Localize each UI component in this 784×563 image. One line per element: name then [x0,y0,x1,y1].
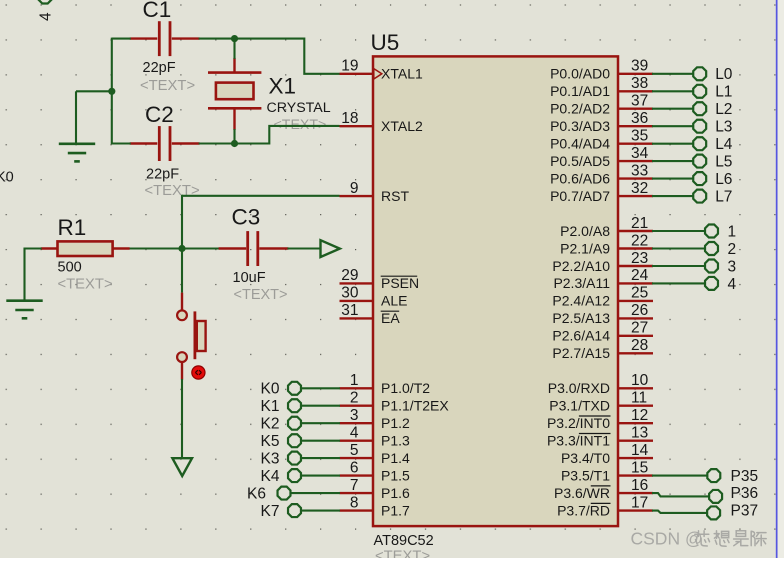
editor window border line [776,0,778,558]
terminal 2 [652,241,736,258]
svg-text:32: 32 [631,180,648,197]
push button top contact [177,310,187,320]
pin 37 P0.2/AD2 (right) [550,93,653,117]
pin 14 P3.4/T0 (right) [561,442,653,466]
svg-text:P3.5/T1: P3.5/T1 [561,467,610,483]
resistor R1 [41,241,130,256]
terminal L2 [652,101,732,118]
pin 33 P0.6/AD6 (right) [550,162,653,186]
pin 27 P2.6/A14 (right) [552,320,653,344]
terminal 3 [652,259,736,276]
svg-text:C2: C2 [145,102,174,127]
svg-text:CSDN @: CSDN @ [631,529,703,549]
wire crystal bottom to C2 junction [233,129,235,145]
terminal K2 [261,415,340,432]
svg-text:P2.4/A12: P2.4/A12 [552,293,610,309]
terminal (cut off at top edge) [39,0,52,3]
capacitor C3 [219,231,289,266]
svg-text:L4: L4 [715,136,733,153]
svg-text:2: 2 [350,390,359,407]
wire RST net horizontal [182,195,340,197]
terminal K6 [247,485,340,502]
terminal P35 [652,468,758,485]
push button bottom pin [181,362,183,380]
svg-text:15: 15 [631,459,648,476]
svg-text:4: 4 [350,425,359,442]
svg-text:31: 31 [341,302,358,319]
pin 24 P2.3/A11 (right) [553,267,653,291]
svg-text:38: 38 [631,75,648,92]
svg-text:30: 30 [341,285,359,302]
pin 12 P3.2/INT0 (right) [547,407,653,431]
svg-text:39: 39 [631,58,648,75]
pin 17 P3.7/RD (right) [557,494,653,518]
wire crystal top stub [233,39,235,59]
svg-text:K5: K5 [261,433,280,450]
svg-text:L5: L5 [715,153,732,170]
node junction R1/C3/RST [178,245,185,252]
svg-text:1: 1 [728,224,737,241]
XTAL1 clock input marker [374,69,382,79]
ground (R1) [23,248,25,301]
svg-text:P2.1/A9: P2.1/A9 [560,240,610,256]
pin 8 P1.7 (left) [340,494,411,518]
svg-text:CRYSTAL: CRYSTAL [267,100,331,116]
svg-text:P3.2/INT0: P3.2/INT0 [547,415,610,431]
svg-text:P2.6/A14: P2.6/A14 [552,328,610,344]
ground arrow terminal [172,458,192,476]
pin 15 P3.5/T1 (right) [561,459,653,483]
node junction C1/crystal top [231,35,238,42]
svg-text:500: 500 [58,259,82,275]
svg-text:P3.3/INT1: P3.3/INT1 [547,433,610,449]
svg-text:35: 35 [631,128,648,145]
pin 9 RST (left) [340,180,410,204]
svg-text:C3: C3 [232,205,261,230]
pin 23 P2.2/A10 (right) [552,250,653,274]
svg-text:36: 36 [631,110,648,127]
svg-text:33: 33 [631,162,648,179]
svg-text:3: 3 [350,407,359,424]
wire RST column down to button [181,195,183,293]
push button actuation marker [192,366,205,379]
svg-text:18: 18 [341,110,358,127]
svg-text:<TEXT>: <TEXT> [140,78,195,94]
svg-text:P0.2/AD2: P0.2/AD2 [550,101,610,117]
pin 4 P1.3 (left) [340,425,411,449]
svg-text:K2: K2 [261,415,280,432]
pin 6 P1.5 (left) [340,459,411,483]
pin 16 P3.6/WR (right) [554,477,653,501]
push button actuator bar [193,311,196,359]
svg-text:P2.5/A13: P2.5/A13 [552,310,610,326]
terminal P36 [652,485,758,503]
pin 35 P0.4/AD4 (right) [550,128,653,152]
wire junction to XTAL1 pin [235,39,340,74]
svg-text:<TEXT>: <TEXT> [58,277,113,293]
svg-text:1: 1 [350,372,359,389]
svg-text:ALE: ALE [381,293,407,309]
svg-text:U5: U5 [371,30,400,55]
watermark chinese character chen [751,531,755,545]
svg-text:XTAL1: XTAL1 [381,66,423,82]
pin 10 P3.0/RXD (right) [548,372,653,396]
svg-text:P1.1/T2EX: P1.1/T2EX [381,398,449,414]
terminal L1 [652,84,732,101]
wire column C1-C2 left [111,38,113,145]
svg-text:K4: K4 [261,468,280,485]
svg-text:P0.5/AD5: P0.5/AD5 [550,153,610,169]
ground (oscillator) [75,91,77,144]
svg-text:26: 26 [631,302,648,319]
wire C1 left to junction column [112,38,131,40]
svg-text:22: 22 [631,232,648,249]
node junction left column/ground [108,88,115,95]
svg-text:L7: L7 [715,188,732,205]
wire R1 left to ground [25,247,42,249]
terminal K5 [261,433,340,450]
pin 36 P0.3/AD3 (right) [550,110,653,134]
svg-text:<TEXT>: <TEXT> [274,117,327,133]
svg-text:R1: R1 [58,215,87,240]
svg-text:P1.0/T2: P1.0/T2 [381,380,430,396]
svg-text:P0.6/AD6: P0.6/AD6 [550,170,610,186]
pin 28 P2.7/A15 (right) [552,337,653,361]
svg-text:10uF: 10uF [233,270,266,286]
svg-text:29: 29 [341,267,358,284]
terminal L0 [652,66,733,83]
svg-text:K0: K0 [0,170,14,186]
push button plunger [197,321,206,351]
capacitor C2 [130,126,200,161]
pin 25 P2.4/A12 (right) [552,285,653,309]
terminal 1 [652,224,736,241]
svg-text:P0.1/AD1: P0.1/AD1 [550,83,610,99]
terminal K1 [261,398,340,415]
svg-text:17: 17 [631,494,648,511]
svg-text:7: 7 [350,477,359,494]
IC U5 AT89C52 body [373,56,618,526]
capacitor C1 [130,21,200,56]
svg-text:P2.7/A15: P2.7/A15 [552,345,610,361]
wire R1 right to junction to C3 left [129,247,220,249]
svg-text:24: 24 [631,267,649,284]
watermark chinese character xin [695,531,766,547]
terminal K0 [261,381,340,398]
terminal L6 [652,171,732,188]
terminal arrow (reset out) [321,240,340,257]
svg-text:P1.6: P1.6 [381,485,410,501]
svg-text:3: 3 [728,259,737,276]
svg-text:P0.4/AD4: P0.4/AD4 [550,136,610,152]
svg-text:P37: P37 [731,502,759,519]
svg-text:P35: P35 [731,468,759,485]
svg-text:16: 16 [631,477,648,494]
svg-text:K1: K1 [261,398,280,415]
svg-text:L2: L2 [715,101,732,118]
svg-text:6: 6 [350,459,359,476]
svg-text:23: 23 [631,250,648,267]
pin 18 XTAL2 (left) [340,110,423,134]
pin 19 XTAL1 (left) [340,58,423,82]
terminal L5 [652,153,732,170]
svg-text:P2.2/A10: P2.2/A10 [552,258,610,274]
svg-text:22pF: 22pF [143,60,176,76]
pin 29 PSEN (left) [340,267,420,291]
svg-text:XTAL2: XTAL2 [381,118,423,134]
svg-text:P3.0/RXD: P3.0/RXD [548,380,610,396]
wire junction to XTAL2 pin [235,126,340,144]
svg-text:L0: L0 [715,66,733,83]
svg-text:P1.4: P1.4 [381,450,410,466]
pin 13 P3.3/INT1 (right) [547,425,653,449]
svg-text:P3.1/TXD: P3.1/TXD [549,398,610,414]
push button bottom contact [177,352,187,362]
svg-text:C1: C1 [143,0,172,22]
node junction C2/crystal bottom [231,140,238,147]
svg-text:12: 12 [631,407,648,424]
wire button to ground arrow [181,379,183,458]
svg-text:11: 11 [631,390,647,407]
svg-text:9: 9 [350,180,359,197]
pin 38 P0.1/AD1 (right) [550,75,653,99]
pin 7 P1.6 (left) [340,477,411,501]
pin 26 P2.5/A13 (right) [552,302,653,326]
wire ground to left column [76,90,112,92]
svg-text:P1.5: P1.5 [381,467,410,483]
wire C1 right to crystal junction [199,38,236,40]
pin 1 P1.0/T2 (left) [340,372,431,396]
svg-text:P1.3: P1.3 [381,433,410,449]
svg-text:K0: K0 [261,381,280,398]
pin 34 P0.5/AD5 (right) [550,145,653,169]
svg-text:L3: L3 [715,118,732,135]
svg-text:L1: L1 [715,84,732,101]
svg-text:P2.0/A8: P2.0/A8 [560,223,610,239]
svg-text:34: 34 [631,145,649,162]
pin 3 P1.2 (left) [340,407,411,431]
pin 22 P2.1/A9 (right) [560,232,653,256]
svg-text:L6: L6 [715,171,732,188]
svg-text:27: 27 [631,320,648,337]
svg-text:37: 37 [631,93,648,110]
terminal L3 [652,118,732,135]
svg-text:K3: K3 [261,450,280,467]
svg-text:P1.7: P1.7 [381,502,410,518]
pin 11 P3.1/TXD (right) [549,390,653,414]
svg-text:22pF: 22pF [146,166,179,182]
svg-text:10: 10 [631,372,649,389]
svg-text:P3.6/WR: P3.6/WR [554,485,610,501]
svg-text:2: 2 [728,241,737,258]
svg-text:P0.3/AD3: P0.3/AD3 [550,118,610,134]
wire C2 left to junction column [112,142,131,144]
svg-text:K6: K6 [247,485,266,502]
svg-text:25: 25 [631,285,648,302]
svg-text:X1: X1 [269,74,297,99]
svg-text:P0.7/AD7: P0.7/AD7 [550,188,610,204]
svg-text:<TEXT>: <TEXT> [375,549,430,559]
svg-text:K7: K7 [261,503,280,520]
svg-text:4: 4 [728,276,737,293]
svg-text:28: 28 [631,337,648,354]
svg-text:P3.7/RD: P3.7/RD [557,502,610,518]
svg-text:RST: RST [381,188,409,204]
crystal X1 [208,58,261,130]
pin 39 P0.0/AD0 (right) [550,58,653,82]
svg-text:EA: EA [381,310,400,326]
watermark chinese character xiang [714,531,719,539]
pin 21 P2.0/A8 (right) [560,215,653,239]
terminal K4 [261,468,340,485]
pin 31 EA (left) [340,302,401,326]
terminal K7 [261,503,340,520]
svg-text:P3.4/T0: P3.4/T0 [561,450,610,466]
watermark chinese character shi [736,531,745,537]
terminal L4 [652,136,733,153]
pin 5 P1.4 (left) [340,442,411,466]
pin 32 P0.7/AD7 (right) [550,180,653,204]
terminal P37 [652,502,758,519]
wire C3 right to output terminal [287,247,321,249]
svg-text:8: 8 [350,494,359,511]
svg-text:5: 5 [350,442,359,459]
svg-text:AT89C52: AT89C52 [374,533,434,549]
svg-text:P36: P36 [731,485,759,502]
svg-text:19: 19 [341,58,358,75]
terminal 4 [652,276,737,293]
svg-text:P1.2: P1.2 [381,415,410,431]
svg-text:PSEN: PSEN [381,275,419,291]
terminal K3 [261,450,340,467]
svg-text:<TEXT>: <TEXT> [234,287,288,303]
svg-text:4: 4 [38,12,55,21]
wire C2 right to junction [199,142,236,144]
svg-text:14: 14 [631,442,649,459]
terminal L7 [652,188,732,205]
pin 30 ALE (left) [340,285,408,309]
svg-text:21: 21 [631,215,648,232]
svg-text:13: 13 [631,425,648,442]
pin 2 P1.1/T2EX (left) [340,390,450,414]
push button top pin [181,293,183,311]
svg-text:P0.0/AD0: P0.0/AD0 [550,66,610,82]
svg-text:P2.3/A11: P2.3/A11 [553,275,610,291]
